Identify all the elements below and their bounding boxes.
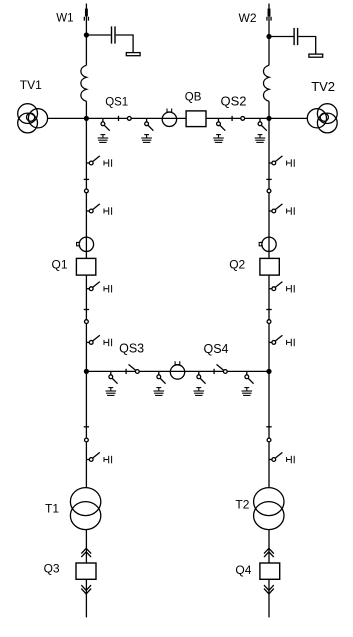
svg-text:Q1: Q1 bbox=[52, 258, 68, 272]
svg-text:Q3: Q3 bbox=[44, 562, 60, 576]
svg-text:T2: T2 bbox=[235, 497, 249, 511]
svg-text:T1: T1 bbox=[45, 501, 59, 515]
svg-text:W1: W1 bbox=[56, 13, 73, 25]
svg-text:QS1: QS1 bbox=[105, 96, 128, 108]
svg-text:QS3: QS3 bbox=[119, 342, 144, 356]
svg-text:W2: W2 bbox=[239, 11, 257, 25]
svg-text:Q2: Q2 bbox=[229, 258, 245, 272]
svg-text:QB: QB bbox=[185, 91, 202, 103]
svg-text:TV1: TV1 bbox=[20, 78, 42, 92]
svg-text:QS4: QS4 bbox=[204, 342, 229, 356]
svg-text:TV2: TV2 bbox=[311, 79, 335, 94]
svg-text:Q4: Q4 bbox=[235, 563, 251, 577]
svg-text:QS2: QS2 bbox=[221, 93, 247, 108]
